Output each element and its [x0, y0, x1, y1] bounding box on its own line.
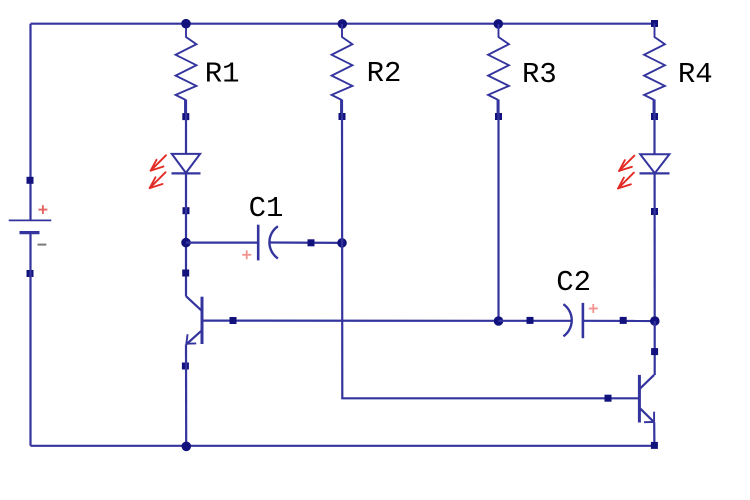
wire R3 down to base node — [497, 100, 499, 322]
wire Q1 emitter to bottom rail — [185, 344, 187, 446]
terminal R1 bottom pin — [182, 113, 189, 120]
terminal LED2 bottom pin — [651, 208, 658, 215]
capacitor C1 — [242, 225, 278, 261]
wire Q1 base to R3 node — [202, 320, 499, 322]
terminal R3 bottom pin — [495, 113, 502, 120]
transistor Q1 — [186, 296, 202, 344]
wire C1 right lead — [270, 241, 342, 244]
LED LED1 — [172, 154, 201, 174]
LED LED2 — [640, 154, 670, 173]
node junction R3/base wire — [494, 316, 504, 326]
svg-text:R1: R1 — [205, 58, 240, 91]
terminal R2 bottom pin — [339, 113, 346, 120]
svg-text:R4: R4 — [678, 58, 713, 91]
terminal Q2 collector pin — [651, 348, 658, 355]
terminal LED1 bottom pin — [183, 207, 190, 214]
node junction top R3 — [494, 19, 504, 29]
terminal Q1 emitter pin — [182, 363, 189, 370]
wire R2 down and over to Q2 base — [342, 100, 639, 399]
wire C2 right lead — [583, 320, 655, 322]
wire top rail — [31, 23, 655, 25]
resistor R3 — [488, 24, 509, 117]
terminal C2 right pin — [620, 317, 627, 324]
LED1 light arrow upper — [151, 155, 166, 170]
svg-text:R3: R3 — [522, 58, 557, 91]
resistor R2 — [332, 24, 353, 117]
node junction bottom rail/Q1 emitter — [182, 442, 192, 452]
battery B1 — [9, 205, 52, 244]
terminal battery positive pin — [27, 177, 34, 184]
terminal top right corner R4 — [651, 20, 658, 27]
capacitor C2 — [563, 303, 597, 338]
terminal battery negative pin — [27, 270, 34, 277]
wire C2 left lead — [499, 320, 572, 322]
resistor R4 — [644, 24, 665, 117]
LED1 light arrow lower — [150, 172, 166, 188]
wire left rail lower (battery -) — [29, 233, 31, 446]
wire R4 to LED2 — [653, 100, 655, 155]
terminal C2 left pin — [527, 317, 534, 324]
svg-text:C2: C2 — [556, 266, 591, 299]
terminal R4 bottom pin — [651, 113, 658, 120]
wire bottom rail — [31, 445, 655, 447]
node junction LED1/C1 — [181, 238, 191, 248]
terminal Q1 collector pin — [182, 270, 189, 277]
wire R1 to LED1 — [185, 100, 187, 155]
svg-text:R2: R2 — [367, 57, 402, 90]
node junction C1/R2 — [337, 238, 347, 248]
wire left rail upper (battery +) — [29, 24, 31, 221]
terminal Q2 emitter pin / bottom right corner — [651, 442, 658, 449]
node junction top R1 — [181, 19, 191, 29]
LED2 light arrow upper — [619, 156, 634, 171]
node junction C2/LED2/Q2 — [650, 316, 660, 326]
terminal Q1 base pin — [230, 317, 237, 324]
terminal C1 right pin — [308, 239, 315, 246]
svg-text:C1: C1 — [249, 192, 284, 225]
wire node to Q2 collector — [654, 321, 656, 375]
wire LED1 to Q1 collector — [185, 173, 187, 296]
resistor R1 — [176, 24, 197, 117]
transistor Q2 — [639, 375, 654, 423]
wire Q2 emitter to bottom rail — [653, 422, 655, 446]
node junction top R2 — [338, 19, 348, 29]
terminal Q2 base pin — [605, 395, 612, 402]
LED2 light arrow lower — [618, 173, 634, 189]
wire LED2 down to C2 node — [653, 173, 655, 321]
wire C1 left lead — [186, 242, 258, 244]
